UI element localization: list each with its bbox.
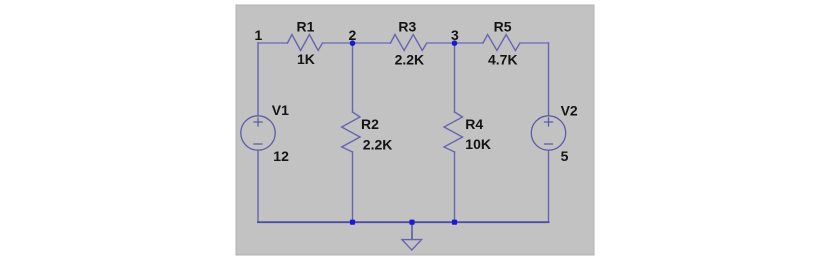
- wire node3 down to R4: [454, 43, 456, 112]
- wire R4 down to bottom: [454, 152, 456, 222]
- voltage source V1 circle: [241, 116, 275, 150]
- junction dot node 2: [350, 40, 356, 46]
- wire top: R1 to R3 through node 2: [323, 42, 391, 44]
- svg-text:R2: R2: [361, 116, 379, 132]
- svg-text:R1: R1: [297, 19, 315, 35]
- svg-text:3: 3: [451, 27, 459, 43]
- svg-text:2.2K: 2.2K: [363, 137, 393, 153]
- resistor R4: [444, 112, 463, 152]
- svg-text:R3: R3: [398, 19, 416, 35]
- wire left branch lower: [257, 151, 259, 223]
- svg-text:1K: 1K: [297, 51, 315, 67]
- wire top: R3 to R5 through node 3: [427, 42, 483, 44]
- wire bottom rail: [258, 221, 549, 223]
- svg-text:2: 2: [349, 27, 357, 43]
- svg-text:R5: R5: [494, 19, 512, 35]
- svg-text:5: 5: [561, 148, 569, 164]
- svg-text:V2: V2: [561, 103, 578, 119]
- svg-text:12: 12: [273, 148, 289, 164]
- svg-text:10K: 10K: [465, 136, 491, 152]
- wire left branch upper: [257, 43, 259, 116]
- V1 plus sign: [254, 118, 262, 126]
- wire top: R5 to right corner: [520, 42, 549, 44]
- wire right branch upper: [548, 43, 550, 116]
- resistor R5: [483, 35, 520, 51]
- V2 minus sign: [545, 143, 553, 145]
- junction dot bottom R2: [350, 220, 355, 225]
- V1 minus sign: [254, 143, 262, 145]
- voltage source V2 circle: [531, 116, 565, 150]
- V2 plus sign: [545, 118, 553, 126]
- svg-text:V1: V1: [272, 102, 289, 118]
- junction dot bottom R4: [452, 220, 457, 225]
- wire top: node1 to R1: [258, 42, 288, 44]
- wire R2 down to bottom: [352, 152, 354, 222]
- resistor R3: [391, 35, 427, 51]
- wire right branch lower: [548, 151, 550, 223]
- ground symbol triangle: [402, 240, 422, 250]
- svg-text:1: 1: [255, 27, 263, 43]
- svg-text:4.7K: 4.7K: [488, 52, 518, 68]
- resistor R1: [288, 35, 323, 51]
- svg-text:2.2K: 2.2K: [395, 52, 425, 68]
- junction dot bottom ground: [409, 220, 414, 225]
- svg-text:R4: R4: [465, 116, 483, 132]
- ground stub wire: [411, 222, 413, 239]
- schematic canvas background: [236, 5, 594, 255]
- wire node2 down to R2: [352, 43, 354, 112]
- resistor R2: [342, 112, 360, 152]
- junction dot node 3: [452, 40, 458, 46]
